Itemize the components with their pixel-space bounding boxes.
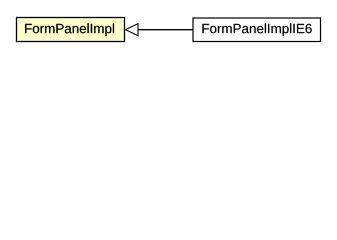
label FormPanelImplIE6	[202, 23, 311, 36]
inheritance wire from FormPanelImplIE6 to arrowhead	[138, 29, 193, 31]
hollow inheritance arrowhead pointing at FormPanelImpl	[126, 24, 138, 36]
label FormPanelImpl	[25, 23, 114, 36]
class box FormPanelImpl (selected, yellow)	[17, 18, 125, 42]
class box FormPanelImplIE6	[193, 18, 321, 42]
background	[0, 0, 337, 59]
